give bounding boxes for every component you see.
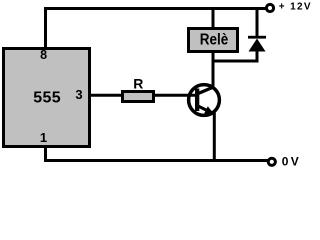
wire diode bottom — [256, 50, 259, 63]
resistor R — [123, 92, 154, 102]
pin 1 label — [40, 130, 47, 145]
svg-text:3: 3 — [75, 87, 82, 102]
relay K1 — [189, 29, 238, 52]
wire collector-diode junction horizontal — [212, 60, 259, 63]
+12V label — [279, 2, 311, 13]
svg-text:Relè: Relè — [200, 32, 229, 49]
IC 555 U1 — [4, 49, 90, 147]
diode D1 — [248, 36, 266, 52]
svg-text:+ 12V: + 12V — [279, 2, 311, 13]
wire pin8 riser — [44, 7, 47, 47]
svg-text:1: 1 — [40, 130, 47, 145]
wire top rail — [44, 7, 267, 10]
wire pin3 to resistor — [91, 94, 122, 97]
wire bottom rail — [44, 159, 268, 162]
svg-text:8: 8 — [40, 48, 47, 62]
svg-text:0 V: 0 V — [282, 155, 299, 169]
terminal 0V — [268, 158, 275, 165]
wire relay bottom to transistor collector — [212, 53, 215, 89]
transistor Q1 — [189, 85, 220, 116]
pin 8 label — [40, 48, 47, 62]
wire diode top riser — [256, 7, 259, 37]
wire relay top riser — [212, 7, 215, 28]
terminal +12V — [266, 4, 273, 11]
0V label — [282, 155, 299, 169]
wire resistor to transistor base — [154, 94, 197, 97]
wire emitter riser — [213, 112, 216, 163]
svg-text:555: 555 — [33, 90, 60, 107]
relay value label — [200, 32, 229, 49]
555 value label — [33, 90, 60, 107]
svg-text:R: R — [133, 76, 143, 92]
pin 3 label — [75, 87, 82, 102]
wire pin1 riser — [44, 148, 47, 162]
resistor R value label — [133, 76, 143, 92]
